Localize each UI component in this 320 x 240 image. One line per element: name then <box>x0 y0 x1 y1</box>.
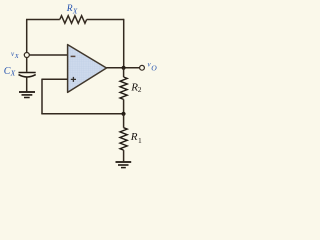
svg-text:X: X <box>10 69 16 78</box>
resistor R2 zigzag <box>120 77 127 99</box>
wire: top-left vertical from vX node up to top rail <box>26 20 28 54</box>
wire: vX node down to capacitor CX <box>26 58 28 72</box>
ground (left, under CX) <box>19 91 35 93</box>
junction dot at output node <box>122 66 126 70</box>
op-amp plus sign <box>71 77 76 82</box>
resistor R1 zigzag <box>120 128 127 150</box>
wire: R1 to ground <box>123 150 125 161</box>
capacitor CX top plate <box>19 72 36 74</box>
wire: left feedback vertical <box>41 79 43 114</box>
ground (right, under R1) <box>116 161 132 163</box>
svg-text:1: 1 <box>138 136 142 145</box>
wire: R2 to junction <box>123 99 125 113</box>
wire: vX node to inverting input <box>29 54 68 56</box>
svg-text:R: R <box>66 4 73 14</box>
wire: top rail left segment (corner to resistor RX) <box>26 19 60 21</box>
wire: top rail right segment (resistor to top-right corner) <box>87 19 124 21</box>
resistor RX zigzag <box>60 16 87 24</box>
wire: capacitor to ground <box>26 77 28 91</box>
junction dot R1/R2 <box>121 112 125 116</box>
svg-text:X: X <box>72 8 78 16</box>
wire: op-amp output to vO terminal <box>107 67 140 69</box>
wire: bottom feedback horizontal to R1/R2 junction <box>41 113 123 115</box>
node vO terminal circle <box>140 65 145 70</box>
svg-text:R: R <box>130 131 138 143</box>
op-amp U1 triangle <box>68 45 107 93</box>
svg-text:2: 2 <box>138 85 142 94</box>
op-amp minus sign <box>71 55 76 57</box>
wire: output junction down to R2 <box>123 68 125 77</box>
wire: right vertical from top rail down to output junction <box>123 19 125 68</box>
node vX terminal circle <box>24 53 29 58</box>
wire: junction down to R1 <box>123 114 125 128</box>
svg-text:O: O <box>151 64 157 73</box>
capacitor CX bottom curved plate <box>19 75 36 77</box>
wire: feedback to non-inverting input <box>42 78 68 80</box>
